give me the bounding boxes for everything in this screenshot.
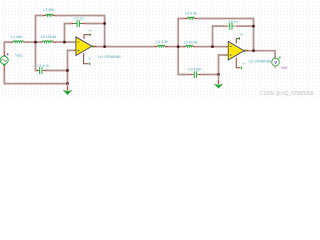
junction dot C2 branch at output vertical: [103, 22, 106, 25]
op-amp U1 triangle: [76, 37, 92, 56]
resistor L5 50.4k: [183, 40, 198, 47]
junction dot U1 output node: [103, 45, 106, 48]
resistor L3 40k (top feedback): [43, 8, 55, 16]
op-amp U2 triangle: [228, 41, 244, 60]
op-amp U1 V- pin: [84, 53, 88, 64]
svg-text:L3 40k: L3 40k: [43, 8, 54, 12]
svg-text:V+: V+: [240, 32, 244, 36]
svg-text:C4 1n: C4 1n: [228, 20, 237, 24]
junction dot return at ground bus: [66, 82, 69, 85]
wire: node C up and top branch (L6) down to U2 output node: [178, 19, 253, 51]
capacitor C2 1n: [71, 16, 84, 27]
junction dot U2 output node: [252, 49, 255, 52]
voltmeter VM1: [272, 57, 288, 70]
svg-text:CSDN @mQ_67880958: CSDN @mQ_67880958: [260, 91, 314, 97]
node B junction dot: [63, 41, 66, 44]
junction dot C1 at ground bus: [66, 69, 69, 72]
wire: U1 plus input to ground bus, bus down: [68, 50, 75, 83]
wire: node B up and C2 branch to output vertical: [65, 24, 105, 43]
wire: U2 plus input to ground bus 2, down: [219, 55, 227, 75]
node C junction dot: [177, 45, 180, 48]
op-amp U2: [226, 32, 271, 69]
junction dot C4 branch at output vertical: [252, 25, 255, 28]
svg-text:L2 125.6k: L2 125.6k: [41, 35, 57, 39]
wire: node C down and C3 branch to ground bus 2: [178, 47, 218, 75]
svg-text:C3 100n: C3 100n: [188, 68, 201, 72]
ground (stage 2): [214, 75, 224, 89]
node A junction dot: [34, 41, 37, 44]
op-amp U2 output tick and stub: [244, 50, 246, 52]
wire: node A up and top feedback branch (L3) down to output node: [36, 16, 105, 47]
op-amp U1: [74, 28, 121, 65]
wire: U1 output node and inter-stage wire to L4: [92, 46, 155, 48]
node D junction dot: [211, 45, 214, 48]
resistor L1 40k: [11, 35, 26, 42]
capacitor C1 4.7n: [36, 64, 49, 74]
wire: node D up and C4 branch to output vertical: [213, 26, 254, 46]
wire: L5 to node D to U2 minus input: [195, 46, 226, 48]
wire: node C to L5: [178, 46, 183, 48]
wire: L1 to node A: [26, 41, 36, 43]
resistor L6 4.3k (top feedback stage 2): [185, 12, 197, 19]
resistor L4 4.3k: [155, 40, 168, 47]
op-amp U2 V- pin: [236, 58, 239, 68]
op-amp U1 V+ pin: [84, 35, 88, 39]
svg-text:C2 1n: C2 1n: [74, 16, 83, 20]
wire: U2 output node to VM1: [244, 51, 275, 59]
wire: node A to L2: [36, 41, 41, 43]
wire: L4 to node C: [168, 46, 179, 48]
svg-text:L5 50.4k: L5 50.4k: [184, 40, 198, 44]
junction dot C3 at ground bus 2: [217, 73, 220, 76]
svg-text:L4 4.3k: L4 4.3k: [156, 40, 168, 44]
svg-text:V-: V-: [89, 56, 92, 60]
voltage generator VG1: [0, 52, 22, 71]
wire: VG1 bottom lead and ground return: [4, 71, 67, 84]
wire: node A down and C1 branch to ground bus: [36, 42, 68, 70]
wire: node B to U1 minus input: [65, 41, 75, 43]
capacitor C3 100n: [188, 68, 201, 78]
svg-text:C1 4.7n: C1 4.7n: [37, 64, 49, 68]
capacitor C4 1n: [225, 20, 238, 30]
ground (stage 1): [63, 84, 73, 95]
svg-text:V+: V+: [88, 28, 92, 32]
resistor L2 125.6k: [40, 35, 57, 42]
svg-text:V-: V-: [242, 61, 245, 65]
svg-text:U2 OPA604E: U2 OPA604E: [249, 60, 272, 64]
svg-text:V: V: [274, 60, 277, 65]
svg-text:L6 4.3k: L6 4.3k: [185, 12, 197, 16]
wire: L2 to node B: [56, 41, 64, 43]
svg-text:U1 OPA604E: U1 OPA604E: [98, 55, 121, 59]
op-amp U2 V+ pin: [236, 39, 238, 44]
svg-text:VM1: VM1: [281, 66, 288, 70]
wire: VG1 top lead and input wire to L1: [4, 42, 11, 53]
svg-text:VG1: VG1: [15, 53, 22, 57]
svg-text:L1 40k: L1 40k: [11, 35, 22, 39]
op-amp U1 output tick and stub: [92, 45, 94, 47]
